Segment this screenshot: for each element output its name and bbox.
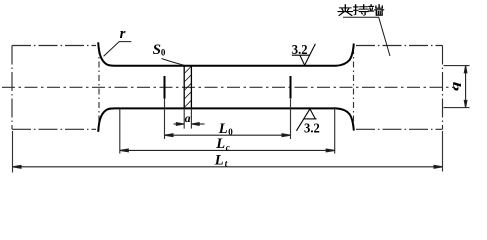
dimension line L0 bbox=[165, 134, 291, 137]
dimension line Lt bbox=[13, 165, 443, 168]
gauge extension right bbox=[290, 99, 292, 139]
extension line Lc right bbox=[334, 107, 336, 154]
extension line Lt right bbox=[442, 131, 444, 172]
roughness symbol 3.2 top bbox=[292, 44, 316, 65]
svg-text:L: L bbox=[218, 121, 228, 137]
dimension a arrows bbox=[174, 123, 205, 126]
svg-text:r: r bbox=[120, 26, 126, 42]
svg-text:0: 0 bbox=[161, 47, 166, 57]
extension line a right bbox=[190, 108, 192, 128]
svg-text:L: L bbox=[214, 152, 224, 168]
grip outline right dashed edge bbox=[442, 46, 444, 130]
left grip boundary projection line bbox=[98, 48, 100, 130]
specimen top outline with fillets bbox=[98, 42, 354, 65]
grip outline bottom right dashed edge bbox=[356, 128, 443, 130]
svg-text:S: S bbox=[153, 42, 161, 58]
svg-text:0: 0 bbox=[228, 127, 233, 137]
gauge mark right bbox=[290, 76, 292, 99]
dimension line Lc bbox=[120, 149, 335, 152]
grip outline left dashed edge bbox=[11, 46, 13, 130]
svg-text:3.2: 3.2 bbox=[304, 120, 320, 135]
grip outline top right dashed edge bbox=[356, 45, 443, 47]
leader for r bbox=[104, 42, 132, 57]
grip outline top left dashed edge bbox=[12, 45, 96, 47]
chinese label chi (hold) bbox=[354, 5, 369, 16]
leader for grip end label bbox=[343, 17, 390, 56]
svg-text:b: b bbox=[450, 82, 462, 92]
extension line Lt left bbox=[12, 131, 14, 173]
roughness symbol 3.2 bottom bbox=[296, 109, 316, 131]
chinese label jia (clamp) bbox=[338, 5, 353, 16]
dimension line b bbox=[464, 66, 467, 108]
section band right edge bbox=[190, 66, 192, 109]
specimen bottom outline with fillets bbox=[98, 108, 354, 131]
gauge extension left bbox=[164, 99, 166, 139]
svg-text:a: a bbox=[185, 111, 191, 125]
centerline bbox=[2, 86, 455, 88]
gauge mark left bbox=[164, 76, 166, 99]
extension line a left bbox=[183, 108, 185, 128]
section band hatching bbox=[184, 66, 191, 107]
section band left edge bbox=[183, 66, 185, 109]
chinese label duan (end) bbox=[368, 5, 383, 16]
leader for S0 bbox=[162, 59, 185, 66]
b extension line top bbox=[444, 65, 470, 67]
svg-text:3.2: 3.2 bbox=[292, 42, 308, 57]
svg-text:c: c bbox=[226, 142, 230, 152]
grip outline bottom left dashed edge bbox=[12, 128, 96, 130]
right grip boundary projection line bbox=[353, 48, 355, 129]
svg-text:L: L bbox=[215, 136, 225, 152]
extension line Lc left bbox=[119, 109, 121, 154]
b extension line bottom bbox=[444, 107, 470, 109]
